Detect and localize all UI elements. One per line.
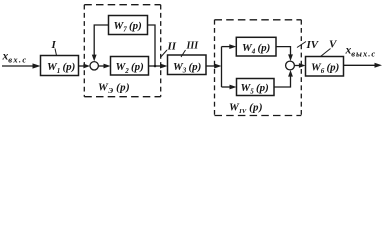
svg-text:WЭ (p): WЭ (p) (98, 82, 130, 95)
block W3 (168, 55, 207, 75)
block W4 (236, 37, 276, 56)
svg-text:W1 (p): W1 (p) (47, 61, 75, 75)
block W2 (111, 57, 149, 76)
svg-text:III: III (186, 41, 200, 52)
wire branch vertical (221, 47, 223, 87)
block W1 (41, 56, 79, 76)
wire W3 to branch point (206, 64, 222, 69)
wire W7 output to sum1 (92, 25, 109, 61)
junction dot feedback tap (154, 65, 157, 68)
leader line numeral I (55, 49, 57, 56)
wire input (2, 63, 41, 68)
svg-text:W7 (p): W7 (p) (114, 20, 142, 34)
wire W1 to sum1 (79, 64, 91, 69)
svg-text:W5 (p): W5 (p) (241, 82, 269, 96)
dashed box W-IV (parallel section) (215, 20, 302, 116)
leader line numeral IV (297, 42, 306, 48)
svg-text:W4 (p): W4 (p) (242, 42, 270, 56)
svg-text:WIV (p): WIV (p) (229, 102, 263, 115)
svg-text:II: II (167, 41, 177, 53)
block W5 (237, 79, 275, 96)
svg-text:V: V (329, 39, 338, 51)
dashed box W-II (inner loop section) (84, 5, 160, 97)
wire sum2 to W6 (294, 63, 305, 68)
wire sum1 to W2 (98, 64, 110, 69)
leader line numeral III (181, 50, 186, 57)
summing junction 2 (286, 61, 295, 70)
wire branch to W4 (222, 44, 237, 49)
svg-text:W6 (p): W6 (p) (311, 62, 339, 76)
block W7 (109, 16, 148, 35)
summing junction 1 (90, 62, 98, 70)
svg-text:xвх.с: xвх.с (2, 51, 28, 65)
svg-text:IV: IV (306, 39, 320, 51)
svg-text:W3 (p): W3 (p) (173, 61, 201, 75)
leader line numeral V (321, 49, 331, 57)
wire W4 to sum2 (276, 47, 293, 61)
wire feedback tap to W7 input (148, 25, 156, 66)
wire branch to W5 (222, 85, 237, 90)
wire W5 to sum2 (274, 70, 293, 87)
svg-text:W2 (p): W2 (p) (116, 61, 144, 75)
leader line numeral II (161, 50, 167, 57)
svg-text:xвых.с: xвых.с (345, 45, 377, 59)
wire W2 to W3 (149, 64, 168, 69)
wire output (344, 63, 383, 68)
block W6 (306, 57, 344, 77)
svg-text:I: I (51, 39, 57, 51)
